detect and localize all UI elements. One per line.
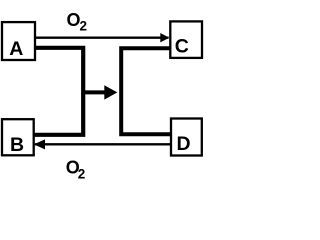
box C [170, 21, 202, 58]
wire D to B (thin arrow) [34, 139, 171, 149]
box A [2, 22, 35, 60]
svg-text:B: B [10, 134, 24, 156]
svg-text:2: 2 [78, 167, 86, 182]
wire A to C (thin arrow) [36, 33, 170, 42]
wire A-B bracket (thick) [34, 48, 84, 135]
svg-text:2: 2 [79, 18, 87, 33]
svg-text:O: O [66, 10, 80, 30]
label O2 bottom [66, 157, 85, 181]
middle big arrow [83, 85, 117, 99]
box B [2, 119, 34, 156]
svg-text:D: D [176, 133, 190, 155]
svg-text:C: C [175, 35, 189, 57]
box D [171, 119, 202, 156]
wire C-D bracket (thick) [121, 48, 172, 134]
label O2 top [66, 10, 86, 34]
svg-text:A: A [9, 38, 23, 60]
